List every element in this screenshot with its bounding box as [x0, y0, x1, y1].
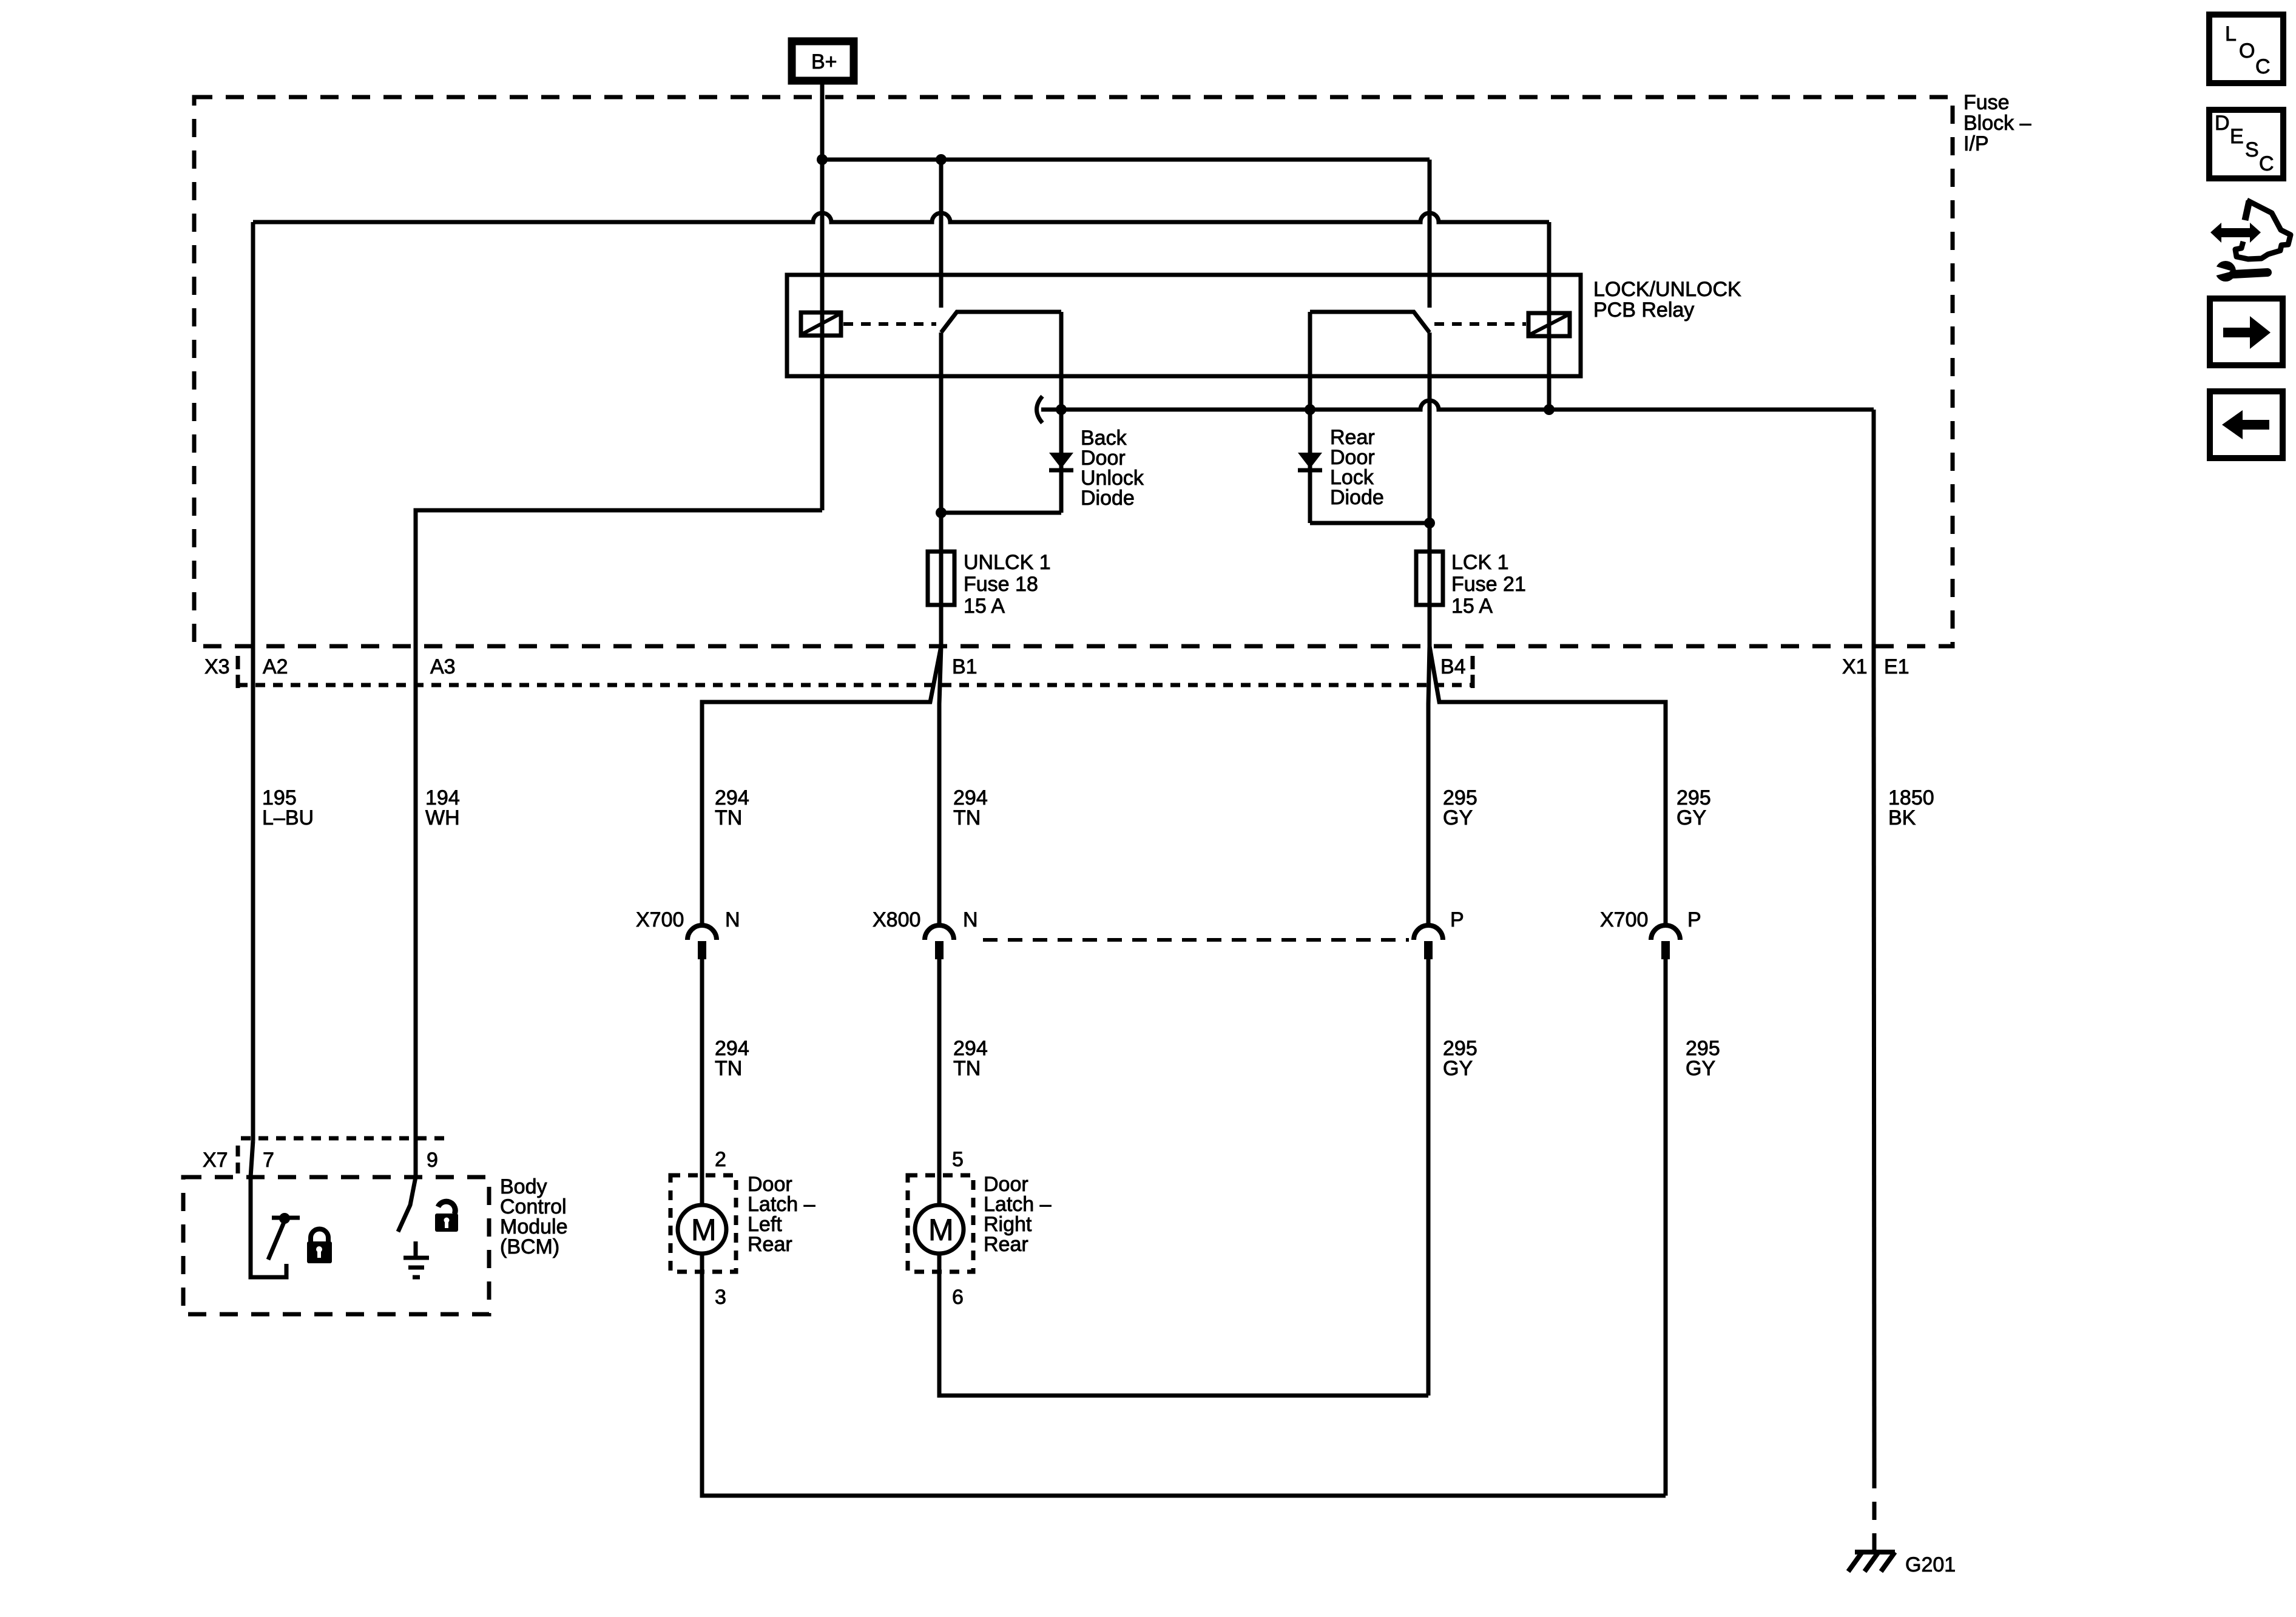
svg-text:P: P	[1687, 908, 1701, 931]
label wire 294 TN right	[953, 786, 988, 829]
svg-text:GY: GY	[1686, 1057, 1715, 1080]
label wire 294 TN right lower	[953, 1037, 988, 1080]
svg-text:L–BU: L–BU	[262, 806, 314, 829]
relay LOCK/UNLOCK PCB Relay outline box	[787, 275, 1581, 376]
wire lock relay common down to fuse 21	[1428, 333, 1432, 646]
label G201	[1905, 1553, 1956, 1576]
svg-text:2: 2	[715, 1148, 726, 1171]
icon closed padlock (lock)	[307, 1229, 332, 1264]
label wire 295 GY right	[1676, 786, 1711, 829]
connector X3 separator dashes	[236, 656, 240, 688]
label pin B1	[952, 655, 977, 678]
ground symbol BCM internal ground	[403, 1241, 429, 1277]
label pin 6	[952, 1286, 964, 1309]
motor door latch right rear dashed box	[908, 1175, 973, 1272]
label wire 195 L-BU	[262, 786, 314, 829]
diode CR1 Back Door Unlock Diode	[1049, 410, 1073, 513]
motor M door latch left rear	[678, 1205, 726, 1254]
icon DESC box	[2209, 110, 2283, 178]
node junction dot lock diode to B4 wire	[1424, 518, 1435, 528]
svg-text:X1: X1	[1842, 655, 1868, 678]
connector B4 separator dashes	[1471, 656, 1475, 688]
label pin 7	[263, 1149, 274, 1172]
icon back arrow box	[2210, 391, 2283, 458]
wire corner to door latch left rear pin 3	[702, 1255, 1666, 1496]
wire BCM pin 7 lead with jog into box	[251, 1141, 286, 1277]
wire ground bus line y=675 with hop over lock common	[1041, 400, 1874, 410]
connector X7 separator dashes	[236, 1146, 240, 1173]
svg-text:LCK 1: LCK 1	[1451, 551, 1509, 574]
wire A3 coil return: coil bottom to corner to A3 drop	[416, 510, 822, 1177]
svg-text:L: L	[2225, 22, 2237, 46]
switch lock relay movable arm and NC contact path	[1310, 312, 1430, 333]
icon LOC box	[2209, 15, 2283, 83]
svg-text:Block –: Block –	[1963, 112, 2031, 135]
label Door Latch - Right Rear	[984, 1173, 1052, 1256]
svg-text:C: C	[2259, 152, 2274, 175]
svg-text:3: 3	[715, 1286, 726, 1309]
svg-text:X700: X700	[636, 908, 684, 931]
label pin 5	[952, 1148, 964, 1171]
label X3	[204, 655, 230, 678]
svg-text:PCB Relay: PCB Relay	[1593, 299, 1694, 322]
label LOCK/UNLOCK PCB Relay	[1593, 278, 1741, 322]
connector X800 pin P in-line	[1414, 925, 1443, 959]
label wire 295 GY right lower	[1686, 1037, 1720, 1080]
svg-text:TN: TN	[715, 806, 742, 829]
label pin 3	[715, 1286, 726, 1309]
label Rear Door Lock Diode	[1330, 426, 1384, 509]
label wire 294 TN left	[715, 786, 749, 829]
svg-text:X700: X700	[1600, 908, 1648, 931]
label Back Door Unlock Diode	[1081, 427, 1144, 510]
svg-text:Fuse 21: Fuse 21	[1451, 573, 1526, 596]
wire B1 jog left branch through connector row	[702, 646, 941, 927]
svg-text:15 A: 15 A	[1451, 595, 1493, 618]
svg-text:X7: X7	[203, 1149, 228, 1172]
switch BCM unlock switch arm	[398, 1177, 416, 1232]
coil unlock relay (left)	[801, 312, 841, 336]
label pin N of X700	[725, 908, 740, 931]
node junction dot ground bus / lock NC	[1305, 404, 1315, 415]
svg-text:LOCK/UNLOCK: LOCK/UNLOCK	[1593, 278, 1741, 301]
svg-text:5: 5	[952, 1148, 964, 1171]
label pin A2	[263, 655, 288, 678]
wire right relay coil top lead	[1547, 222, 1551, 339]
wire unlock relay NC contact drop	[1059, 312, 1064, 410]
label wire 1850 BK	[1888, 786, 1934, 829]
wire BCM lock switch reference bar	[272, 1216, 300, 1220]
svg-text:B+: B+	[811, 50, 837, 73]
label Door Latch - Left Rear	[748, 1173, 815, 1256]
wire lock diode bottom jog to B4 wire	[1310, 521, 1430, 525]
ground G201 chassis ground symbol	[1848, 1552, 1895, 1571]
wire A2 vertical (195 L-BU feed) from corner down to connector A2	[251, 222, 255, 646]
label X800 (N)	[873, 908, 920, 931]
svg-text:9: 9	[427, 1149, 438, 1172]
svg-text:15 A: 15 A	[964, 595, 1005, 618]
switch unlock relay movable arm and NC contact path	[941, 312, 1061, 333]
svg-text:Rear: Rear	[984, 1233, 1028, 1256]
wire unlock diode bottom jog to B1 wire	[941, 511, 1061, 515]
label pin P of X800	[1450, 908, 1464, 931]
label UNLCK 1 Fuse 18 15 A	[964, 551, 1051, 618]
svg-text:O: O	[2239, 39, 2255, 62]
svg-text:I/P: I/P	[1963, 132, 1989, 155]
svg-text:M: M	[928, 1213, 954, 1247]
label pin X1	[1842, 655, 1868, 678]
motor M door latch right rear	[915, 1205, 964, 1254]
wire B+ feed down right side to right relay pivot	[1428, 160, 1432, 308]
svg-text:Fuse 18: Fuse 18	[964, 573, 1038, 596]
label Body Control Module (BCM)	[500, 1175, 568, 1258]
svg-text:Diode: Diode	[1081, 487, 1135, 510]
motor door latch left rear dashed box	[670, 1175, 736, 1272]
connector strip short-dash line	[238, 683, 1473, 687]
svg-text:(BCM): (BCM)	[500, 1235, 559, 1258]
svg-text:TN: TN	[953, 806, 981, 829]
wire lock coil control line y=366 (hops over three verticals)	[253, 213, 1549, 222]
svg-text:TN: TN	[953, 1057, 981, 1080]
dashed link X800 N to X800 P	[983, 938, 1409, 942]
wire B4 straight branch to X800 P	[1428, 646, 1430, 927]
label wire 295 GY left	[1443, 786, 1477, 829]
label pin 2	[715, 1148, 726, 1171]
label pin A3	[430, 655, 456, 678]
svg-text:GY: GY	[1676, 806, 1706, 829]
wire A2 drop to BCM pin 7	[251, 646, 255, 1141]
wire B+ feed down to left relay fixed contact	[939, 160, 944, 308]
connector X800 pin N in-line	[925, 925, 954, 959]
wire ground bus drop to X1 E1	[1872, 410, 1876, 646]
icon hand with double arrow and wrench (repair info)	[2210, 200, 2291, 282]
label pin 9	[427, 1149, 438, 1172]
power symbol B+ box	[792, 41, 854, 81]
wire X700 N to door latch left rear pin 2	[700, 959, 704, 1203]
svg-text:G201: G201	[1905, 1553, 1956, 1576]
svg-text:Fuse: Fuse	[1963, 91, 2010, 114]
svg-text:S: S	[2245, 138, 2259, 161]
diode CR2 Rear Door Lock Diode	[1298, 410, 1322, 523]
node junction dot unlock diode to B1 wire	[936, 507, 947, 518]
svg-text:UNLCK 1: UNLCK 1	[964, 551, 1051, 574]
wire BCM pin 9 lead into box	[414, 1177, 418, 1178]
svg-text:N: N	[963, 908, 978, 931]
label Fuse Block - I/P	[1963, 91, 2031, 155]
wire lock relay coil bottom lead	[1547, 336, 1551, 410]
label wire 295 GY left lower	[1443, 1037, 1477, 1080]
coil lock relay (right)	[1528, 313, 1570, 336]
connector X700 pin N in-line	[687, 925, 717, 959]
label wire 294 TN left lower	[715, 1037, 749, 1080]
label pin P of X700	[1687, 908, 1701, 931]
svg-text:7: 7	[263, 1149, 274, 1172]
svg-text:D: D	[2215, 112, 2230, 135]
svg-text:P: P	[1450, 908, 1464, 931]
svg-text:BK: BK	[1888, 806, 1916, 829]
dashed mechanical link unlock relay	[843, 322, 936, 326]
svg-text:Diode: Diode	[1330, 486, 1384, 509]
wire B1 straight branch to X800 N	[939, 646, 941, 927]
wire corner to door latch right rear pin 6	[939, 1255, 1428, 1396]
label pin N of X800	[963, 908, 978, 931]
connector X700 pin P in-line	[1651, 925, 1680, 959]
node BCM lock switch pivot dot	[279, 1213, 290, 1224]
svg-text:X3: X3	[204, 655, 230, 678]
wire B+ vertical through unlock relay coil	[820, 160, 825, 510]
svg-text:TN: TN	[715, 1057, 742, 1080]
svg-text:Rear: Rear	[748, 1233, 792, 1256]
node junction dot B+ bus left	[817, 154, 828, 165]
connector X7 strip short-dash line	[241, 1136, 447, 1141]
icon forward arrow box	[2210, 299, 2283, 365]
svg-text:B1: B1	[952, 655, 977, 678]
switch BCM lock switch arm	[268, 1221, 285, 1260]
svg-text:X800: X800	[873, 908, 920, 931]
svg-text:N: N	[725, 908, 740, 931]
module BCM dashed outline box	[183, 1177, 489, 1314]
wire lock relay NC contact drop	[1308, 312, 1312, 410]
node junction dot ground bus / unlock NC	[1056, 404, 1067, 415]
svg-text:E: E	[2230, 125, 2244, 148]
label pin E1	[1884, 655, 1909, 678]
dashed mechanical link lock relay	[1434, 322, 1526, 326]
svg-text:GY: GY	[1443, 806, 1473, 829]
label pin B4	[1440, 655, 1466, 678]
fuse block - I/P dashed outline box	[194, 97, 1953, 646]
svg-text:6: 6	[952, 1286, 964, 1309]
wire B+ horizontal bus y=263	[822, 158, 1430, 162]
fuse F21 LCK 1 Fuse 21 15 A	[1416, 552, 1443, 605]
svg-text:WH: WH	[425, 806, 460, 829]
label X700 (N)	[636, 908, 684, 931]
wire B+ vertical drop to junction	[820, 84, 825, 160]
label X700 (P)	[1600, 908, 1648, 931]
label wire 194 WH	[425, 786, 460, 829]
svg-text:A2: A2	[263, 655, 288, 678]
connector pass-through arc at ground bus left end	[1037, 396, 1043, 423]
wire X700 P down to corner y=2465	[1664, 959, 1668, 1496]
svg-text:GY: GY	[1443, 1057, 1473, 1080]
svg-text:A3: A3	[430, 655, 456, 678]
node junction dot B+ bus right	[936, 154, 947, 165]
node junction dot ground bus / lock coil	[1544, 404, 1555, 415]
label LCK 1 Fuse 21 15 A	[1451, 551, 1526, 618]
label X7	[203, 1149, 228, 1172]
fuse F18 UNLCK 1 Fuse 18 15 A	[928, 552, 954, 605]
wire X800 N to door latch right rear pin 5	[937, 959, 942, 1203]
svg-text:B4: B4	[1440, 655, 1466, 678]
wire 1850 BK from E1 down (solid)	[1874, 646, 1874, 1470]
icon open padlock (unlock)	[435, 1201, 458, 1232]
wire X800 P down to corner y=2300	[1427, 959, 1431, 1396]
svg-text:M: M	[691, 1213, 717, 1247]
wire B4 jog right branch through connector row	[1430, 646, 1666, 927]
svg-text:E1: E1	[1884, 655, 1909, 678]
svg-text:C: C	[2255, 55, 2271, 78]
wire 1850 BK dashed lower segment	[1872, 1470, 1877, 1551]
wire unlock relay common down to fuse 18	[939, 333, 944, 646]
